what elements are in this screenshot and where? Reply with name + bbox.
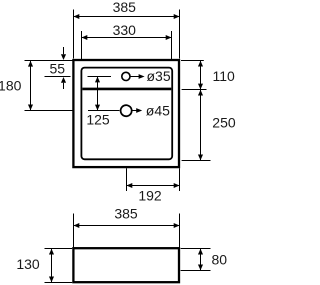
svg-text:385: 385 <box>113 0 137 15</box>
dimension 125 faucet to drain centres <box>86 77 119 128</box>
dimension 130 overall height <box>16 249 72 283</box>
dimension 55 top edge to faucet centre <box>25 47 75 89</box>
svg-text:130: 130 <box>16 256 40 272</box>
top view outer rim (plan view of washbasin) <box>73 60 179 167</box>
svg-text:250: 250 <box>212 114 236 130</box>
svg-text:125: 125 <box>86 112 110 128</box>
front view outline <box>73 248 179 282</box>
svg-text:80: 80 <box>212 251 228 267</box>
svg-text:192: 192 <box>138 188 162 204</box>
basin back-ledge divider line <box>82 88 171 91</box>
drain hole circle (d45) <box>121 105 132 116</box>
dimension 385 front view <box>74 205 180 247</box>
dimension 80 right height <box>181 249 228 271</box>
svg-text:55: 55 <box>50 60 66 76</box>
dimension 385 top view <box>74 0 180 59</box>
faucet hole circle (d35) <box>122 72 130 80</box>
leader arrow for faucet hole <box>130 74 144 79</box>
svg-text:110: 110 <box>213 68 236 84</box>
svg-text:330: 330 <box>113 22 137 38</box>
leader arrow for drain hole <box>132 108 142 113</box>
dimension 192 drain centre to right edge <box>127 168 180 203</box>
svg-text:180: 180 <box>0 78 22 94</box>
svg-text:ø45: ø45 <box>146 103 170 119</box>
dimension 110 right side <box>181 61 235 90</box>
top view inner rim (rounded square) <box>81 68 172 160</box>
svg-text:ø35: ø35 <box>147 68 171 84</box>
dimension 330 inner rim width <box>82 22 172 59</box>
dimension 180 left side <box>0 61 73 111</box>
dimension 250 right side <box>182 90 236 161</box>
svg-text:385: 385 <box>114 205 138 221</box>
